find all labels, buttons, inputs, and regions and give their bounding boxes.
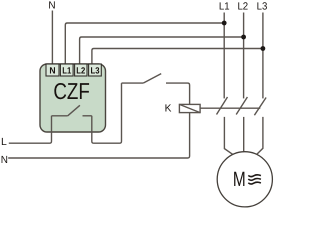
linkage coil K to main contacts — [200, 107, 260, 109]
wire pole 1 to motor — [224, 117, 233, 155]
svg-text:L2: L2 — [76, 66, 85, 76]
wire pole 3 to motor — [256, 117, 263, 155]
wire L1 feeder vertical — [223, 13, 225, 99]
main contact K pole 3 blade — [254, 98, 266, 116]
wire L2 feeder vertical — [243, 13, 245, 99]
svg-text:L: L — [1, 137, 7, 148]
svg-text:N: N — [1, 155, 8, 166]
wire L1 branch to CZF terminal L1 — [65, 23, 224, 65]
main contact K pole 1 blade — [217, 97, 228, 115]
motor label 3-phase tildes — [248, 175, 261, 184]
svg-text:N: N — [48, 1, 55, 12]
wire L3 branch to CZF terminal L3 — [92, 49, 263, 65]
svg-text:L1: L1 — [62, 66, 71, 76]
svg-text:M: M — [233, 168, 246, 191]
wire N drop to CZF terminal — [51, 11, 53, 65]
main contact K pole 2 blade — [236, 97, 247, 115]
node junction L1 — [222, 21, 227, 26]
wire L3 feeder vertical — [262, 13, 264, 99]
relay CZF body — [40, 64, 106, 132]
contact K auxiliary (NO) — [122, 74, 190, 105]
svg-text:K: K — [165, 103, 172, 114]
terminal L3 of CZF — [89, 64, 102, 76]
terminal L2 of CZF — [75, 64, 87, 76]
wire pole 2 to motor — [243, 117, 245, 152]
svg-text:L3: L3 — [257, 1, 268, 12]
relay coil K — [179, 104, 200, 112]
terminal N of CZF — [46, 64, 59, 76]
CZF output contact (NO) — [52, 105, 92, 116]
svg-text:N: N — [49, 66, 55, 76]
node junction L2 — [241, 35, 246, 40]
node junction L3 — [261, 46, 266, 51]
terminal L1 of CZF — [60, 64, 73, 76]
svg-text:L2: L2 — [237, 1, 248, 12]
svg-text:L1: L1 — [219, 1, 230, 12]
wire coil K to N bus — [8, 113, 189, 158]
svg-text:CZF: CZF — [53, 78, 90, 104]
svg-text:L3: L3 — [91, 66, 100, 76]
wire L2 branch to CZF terminal L2 — [80, 37, 244, 65]
wire L supply to CZF contact — [9, 116, 52, 143]
wire CZF contact to K contact — [92, 83, 122, 143]
motor M body — [217, 152, 272, 207]
